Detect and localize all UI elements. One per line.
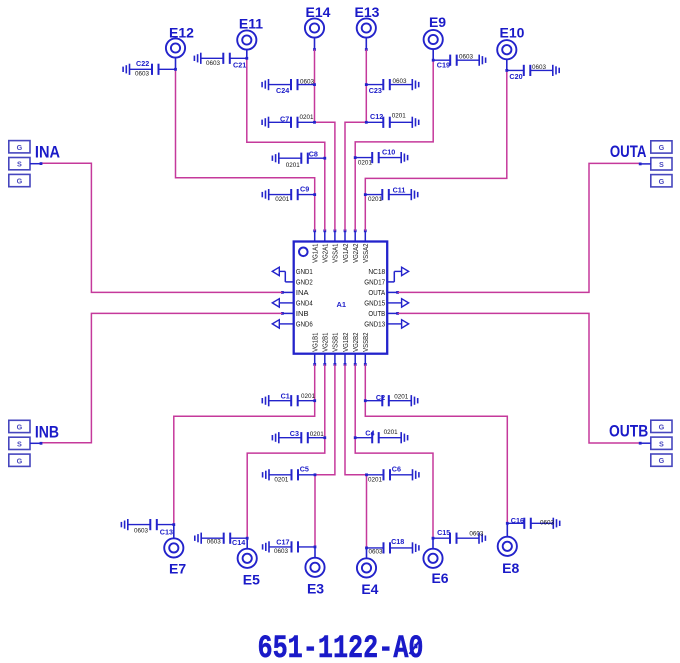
svg-text:GND15: GND15 — [364, 299, 385, 308]
svg-text:C11: C11 — [393, 185, 406, 194]
svg-text:OUTB: OUTB — [609, 423, 648, 441]
svg-text:C16: C16 — [511, 516, 524, 525]
svg-text:E3: E3 — [307, 581, 324, 597]
svg-text:S: S — [659, 160, 664, 169]
svg-text:G: G — [17, 177, 23, 186]
svg-text:0201: 0201 — [310, 431, 325, 438]
svg-text:INA: INA — [35, 143, 60, 161]
svg-text:G: G — [17, 143, 23, 152]
svg-text:G: G — [659, 143, 665, 152]
svg-text:VG2B1: VG2B1 — [321, 333, 330, 352]
svg-text:A1: A1 — [337, 300, 347, 309]
svg-text:C1: C1 — [281, 392, 290, 401]
svg-text:0603: 0603 — [532, 64, 547, 71]
svg-text:G: G — [17, 423, 23, 432]
svg-text:0603: 0603 — [459, 54, 474, 61]
svg-text:VSSA1: VSSA1 — [331, 244, 340, 263]
svg-text:0603: 0603 — [369, 549, 384, 556]
svg-text:C22: C22 — [136, 59, 149, 68]
svg-text:0201: 0201 — [286, 162, 301, 169]
svg-text:C2: C2 — [376, 393, 385, 402]
svg-text:C21: C21 — [233, 61, 246, 70]
svg-text:E12: E12 — [169, 25, 194, 41]
svg-text:OUTA: OUTA — [368, 288, 385, 297]
svg-text:OUTA: OUTA — [610, 143, 647, 161]
svg-text:E8: E8 — [502, 560, 519, 576]
svg-text:C3: C3 — [290, 429, 299, 438]
svg-text:0201: 0201 — [301, 393, 316, 400]
svg-text:E11: E11 — [239, 16, 263, 32]
svg-text:0603: 0603 — [300, 79, 315, 86]
svg-text:C5: C5 — [300, 465, 309, 474]
svg-text:0201: 0201 — [274, 477, 289, 484]
svg-text:C9: C9 — [300, 185, 309, 194]
svg-text:0603: 0603 — [393, 78, 408, 85]
svg-text:0201: 0201 — [394, 394, 409, 401]
svg-text:VSSA2: VSSA2 — [361, 244, 370, 263]
svg-text:VG1A2: VG1A2 — [341, 244, 350, 263]
svg-text:0603: 0603 — [134, 528, 149, 535]
svg-text:C19: C19 — [437, 61, 450, 70]
svg-text:VSSB2: VSSB2 — [361, 333, 370, 352]
svg-text:INB: INB — [35, 423, 59, 441]
svg-text:G: G — [659, 422, 665, 431]
svg-text:GND2: GND2 — [296, 278, 313, 287]
svg-text:0603: 0603 — [206, 60, 221, 67]
svg-text:0201: 0201 — [368, 477, 383, 484]
svg-text:C23: C23 — [369, 86, 382, 95]
svg-text:E14: E14 — [306, 4, 331, 20]
svg-text:OUTB: OUTB — [368, 309, 385, 318]
svg-text:GND1: GND1 — [296, 267, 313, 276]
svg-text:E6: E6 — [431, 570, 448, 586]
svg-text:GND6: GND6 — [296, 320, 313, 329]
svg-text:E13: E13 — [355, 4, 380, 20]
svg-text:E7: E7 — [169, 561, 186, 577]
svg-text:C4: C4 — [365, 429, 374, 438]
svg-text:C20: C20 — [509, 72, 522, 81]
svg-text:0603: 0603 — [207, 539, 222, 546]
svg-text:C24: C24 — [276, 86, 289, 95]
svg-text:G: G — [659, 456, 665, 465]
svg-text:GND17: GND17 — [364, 278, 385, 287]
svg-text:S: S — [17, 160, 22, 169]
svg-text:0201: 0201 — [358, 160, 373, 167]
svg-text:INA: INA — [296, 288, 309, 297]
svg-text:VG1B2: VG1B2 — [341, 333, 350, 352]
svg-text:0603: 0603 — [135, 71, 150, 78]
svg-text:C13: C13 — [160, 528, 173, 537]
svg-text:C6: C6 — [392, 465, 401, 474]
svg-text:0603: 0603 — [469, 530, 484, 537]
svg-text:C14: C14 — [232, 538, 245, 547]
svg-text:E4: E4 — [361, 581, 378, 597]
svg-text:VG2A2: VG2A2 — [351, 244, 360, 263]
svg-text:0201: 0201 — [275, 196, 290, 203]
svg-text:C12: C12 — [370, 112, 383, 121]
svg-text:G: G — [659, 177, 665, 186]
svg-text:0201: 0201 — [392, 113, 407, 120]
svg-text:VG1B1: VG1B1 — [311, 333, 320, 352]
svg-text:GND4: GND4 — [296, 299, 313, 308]
svg-text:E10: E10 — [500, 25, 525, 41]
svg-text:VSSB1: VSSB1 — [331, 333, 340, 352]
svg-text:INB: INB — [296, 309, 309, 318]
svg-text:E9: E9 — [429, 14, 446, 30]
svg-text:C17: C17 — [276, 537, 289, 546]
svg-text:VG2B2: VG2B2 — [351, 333, 360, 352]
svg-text:0603: 0603 — [540, 520, 555, 527]
svg-text:VG1A1: VG1A1 — [311, 244, 320, 263]
svg-text:0603: 0603 — [274, 548, 289, 555]
svg-text:S: S — [17, 439, 22, 448]
svg-text:C18: C18 — [391, 537, 404, 546]
svg-text:NC18: NC18 — [368, 267, 385, 276]
svg-text:C10: C10 — [382, 148, 395, 157]
svg-text:0201: 0201 — [384, 429, 399, 436]
svg-text:S: S — [659, 439, 664, 448]
svg-text:C7: C7 — [280, 115, 289, 124]
svg-text:G: G — [17, 456, 23, 465]
svg-text:GND13: GND13 — [364, 320, 385, 329]
svg-text:C8: C8 — [309, 150, 318, 159]
svg-text:C15: C15 — [437, 528, 450, 537]
svg-text:VG2A1: VG2A1 — [321, 244, 330, 263]
svg-text:651-1122-A0: 651-1122-A0 — [258, 630, 424, 663]
svg-text:0201: 0201 — [368, 196, 383, 203]
svg-text:0201: 0201 — [300, 114, 315, 121]
svg-text:E5: E5 — [243, 572, 260, 588]
